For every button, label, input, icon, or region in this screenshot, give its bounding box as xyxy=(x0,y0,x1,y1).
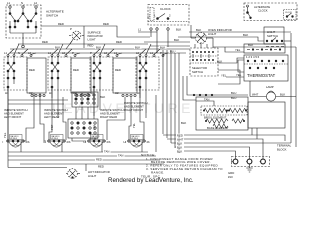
surface element LF xyxy=(3,135,30,148)
credit text xyxy=(108,177,194,184)
svg-text:RED: RED xyxy=(115,68,121,72)
svg-text:HI: HI xyxy=(84,140,87,144)
svg-text:L2: L2 xyxy=(136,51,140,55)
label LAMP xyxy=(266,85,274,89)
wire RED to clock/light switch xyxy=(178,33,264,41)
svg-text:Rendered by LeadVenture, Inc.: Rendered by LeadVenture, Inc. xyxy=(108,177,194,184)
svg-text:BLK: BLK xyxy=(181,121,186,125)
svg-text:P: P xyxy=(160,51,162,55)
clock dashed box xyxy=(148,5,189,26)
svg-text:RED: RED xyxy=(96,158,102,162)
surface element RF xyxy=(124,135,151,148)
svg-text:LIGHT: LIGHT xyxy=(88,38,97,42)
infinite switch module 4 xyxy=(136,51,164,98)
svg-text:BLK: BLK xyxy=(135,46,140,50)
svg-text:H1: H1 xyxy=(5,91,9,95)
selector switch dashed box xyxy=(190,48,218,76)
svg-text:RED: RED xyxy=(29,68,35,72)
svg-text:TAN: TAN xyxy=(118,154,123,158)
hot indicator light xyxy=(66,169,80,179)
thermostat left wires xyxy=(226,60,244,77)
svg-text:1 2 3 4 5 6: 1 2 3 4 5 6 xyxy=(246,55,260,59)
label PRP rotated xyxy=(50,123,136,130)
svg-text:L1: L1 xyxy=(150,51,154,55)
alternate clock dashed box xyxy=(244,3,297,21)
svg-text:TAN: TAN xyxy=(204,98,209,102)
svg-text:THERMOSTAT: THERMOSTAT xyxy=(247,73,276,78)
wire clock to oven indicator xyxy=(190,25,192,38)
surface element RR xyxy=(84,135,111,148)
svg-text:L1: L1 xyxy=(7,1,11,5)
svg-text:L2: L2 xyxy=(104,51,108,55)
svg-text:RED: RED xyxy=(58,22,64,26)
module 1 wire box xyxy=(27,58,46,97)
svg-text:LEFT FRONT: LEFT FRONT xyxy=(4,115,21,119)
connector grid top xyxy=(72,92,105,107)
svg-text:H1: H1 xyxy=(49,91,53,95)
light switch box xyxy=(264,27,284,47)
wire BLK under clock xyxy=(144,38,190,46)
svg-text:BLK: BLK xyxy=(196,28,201,32)
svg-text:BLU: BLU xyxy=(231,96,236,100)
svg-text:BLK: BLK xyxy=(248,43,253,47)
svg-text:CLOCK: CLOCK xyxy=(160,7,172,11)
label infinite switch right rear xyxy=(100,108,123,119)
node below alternate switch xyxy=(22,38,25,48)
broil element box xyxy=(196,97,248,130)
label terminal block xyxy=(277,144,292,152)
wire RED lower-left xyxy=(18,40,148,44)
infinite switch module 3 xyxy=(90,51,118,98)
right rail wires xyxy=(284,33,296,147)
svg-text:RED: RED xyxy=(116,40,122,44)
wires module1 to element LF xyxy=(8,88,46,141)
module 3 wire box xyxy=(113,58,137,97)
svg-text:N: N xyxy=(18,51,20,55)
svg-text:YEL: YEL xyxy=(3,132,7,138)
svg-text:BLK: BLK xyxy=(280,93,285,97)
svg-text:LIGHT: LIGHT xyxy=(208,32,217,36)
selector wires right xyxy=(183,58,248,100)
clock terminals below xyxy=(150,27,169,53)
wires P diagonals near surface light xyxy=(66,27,93,49)
svg-text:YEL: YEL xyxy=(235,48,241,52)
svg-text:RED: RED xyxy=(103,22,109,26)
oven light receptacle box xyxy=(244,44,285,53)
svg-text:BLU: BLU xyxy=(231,91,236,95)
element drop stubs xyxy=(21,142,142,152)
label BLK near broil xyxy=(181,121,186,125)
svg-text:N: N xyxy=(21,1,23,5)
selector feeder stubs xyxy=(195,42,213,48)
svg-text:P: P xyxy=(72,51,74,55)
svg-text:LIGHT: LIGHT xyxy=(88,174,97,178)
svg-text:PRP: PRP xyxy=(93,124,97,130)
svg-text:CLOCK: CLOCK xyxy=(258,9,268,13)
svg-text:YEL: YEL xyxy=(148,14,151,19)
svg-text:BLK: BLK xyxy=(160,46,165,50)
svg-text:RED: RED xyxy=(88,44,94,48)
label oven indicator light xyxy=(208,28,232,36)
svg-text:P: P xyxy=(90,51,92,55)
wire TAN top of broil box xyxy=(196,98,214,107)
label infinite switch left front xyxy=(4,108,27,119)
svg-text:SWITCH: SWITCH xyxy=(267,34,278,38)
notes text xyxy=(141,153,223,178)
svg-text:RIGHT REAR: RIGHT REAR xyxy=(100,115,117,119)
svg-text:BLK: BLK xyxy=(217,60,222,64)
svg-text:L1: L1 xyxy=(48,51,52,55)
surface element LR xyxy=(44,135,71,148)
svg-text:2Ib: 2Ib xyxy=(67,140,71,144)
module 2 wire box xyxy=(71,58,91,97)
svg-text:BAKE ELEMENT: BAKE ELEMENT xyxy=(207,126,229,130)
svg-text:L1: L1 xyxy=(4,51,8,55)
svg-text:YEL: YEL xyxy=(221,74,227,78)
connector grid bottom xyxy=(68,119,98,138)
alternate switch SW-ALT xyxy=(6,1,41,38)
svg-text:RED: RED xyxy=(73,68,79,72)
label infinite switch right front xyxy=(124,101,147,112)
oven indicator light DS2 xyxy=(191,33,213,44)
wire BLK bus 1 xyxy=(10,46,150,50)
bus stack to terminal block xyxy=(163,128,291,159)
wire BLK bus 2 xyxy=(10,46,190,54)
label alternate switch xyxy=(46,10,64,18)
svg-text:TAN: TAN xyxy=(104,150,109,154)
svg-text:H2: H2 xyxy=(115,91,119,95)
svg-text:LEFT REAR: LEFT REAR xyxy=(44,115,59,119)
svg-text:W 2I8-8: W 2I8-8 xyxy=(51,138,58,140)
svg-text:L1: L1 xyxy=(138,28,142,32)
svg-text:PRP: PRP xyxy=(50,124,54,130)
diagonal feeders to module tops xyxy=(8,44,168,55)
wires below elements xyxy=(8,150,164,172)
svg-text:2Ib: 2Ib xyxy=(26,140,30,144)
svg-text:2b: 2b xyxy=(147,140,151,144)
svg-text:L2: L2 xyxy=(34,1,38,5)
svg-text:L2: L2 xyxy=(62,51,66,55)
wire BLK from clock xyxy=(138,28,291,33)
infinite switch module 1 xyxy=(4,51,32,98)
svg-text:YEL: YEL xyxy=(236,73,242,77)
svg-text:H1: H1 xyxy=(137,91,141,95)
wires module2 to element LR xyxy=(49,84,66,140)
svg-text:BLK: BLK xyxy=(96,46,101,50)
svg-text:HI: HI xyxy=(124,140,127,144)
wires module3/4 to elements xyxy=(94,84,156,152)
svg-text:BLK: BLK xyxy=(174,38,179,42)
svg-text:SWITCH: SWITCH xyxy=(192,70,203,74)
svg-text:SWITCH: SWITCH xyxy=(46,14,58,18)
svg-text:RIGHT FRONT: RIGHT FRONT xyxy=(124,108,143,112)
svg-text:BLK: BLK xyxy=(100,95,105,99)
svg-text:BLK: BLK xyxy=(177,149,182,153)
infinite switch module 2 xyxy=(48,51,76,98)
left rail wire xyxy=(3,98,68,168)
label infinite switch left rear xyxy=(44,108,67,119)
svg-text:2Ib: 2Ib xyxy=(107,140,111,144)
wires grids to elements xyxy=(72,107,95,141)
wire bundle right of module 4 xyxy=(163,50,179,153)
wire RED top run xyxy=(41,22,150,37)
surface indicator light DS1 xyxy=(69,26,84,48)
svg-text:W 2I8-8: W 2I8-8 xyxy=(10,138,17,140)
svg-text:#10: #10 xyxy=(228,175,233,179)
label surface indicator light xyxy=(88,31,103,42)
label hot indicator light xyxy=(88,170,110,178)
svg-text:RED: RED xyxy=(98,164,104,168)
svg-text:YEL: YEL xyxy=(132,123,136,128)
terminal block xyxy=(231,157,270,167)
svg-text:LAMP: LAMP xyxy=(266,85,274,89)
oven lamp xyxy=(250,81,296,101)
svg-text:W 2I8-8: W 2I8-8 xyxy=(131,138,138,140)
svg-text:P: P xyxy=(70,27,72,31)
oven box right xyxy=(248,102,285,128)
wire from oven indicator xyxy=(213,38,296,52)
svg-text:BLK: BLK xyxy=(176,28,181,32)
svg-text:BLK: BLK xyxy=(243,33,248,37)
ground xyxy=(246,164,252,172)
svg-text:WHT: WHT xyxy=(252,93,259,97)
svg-text:BLOCK: BLOCK xyxy=(277,148,287,152)
clock left internal component xyxy=(148,8,155,21)
svg-text:W 2I8-8: W 2I8-8 xyxy=(91,138,98,140)
svg-text:RED: RED xyxy=(42,40,48,44)
thermostat box xyxy=(244,55,288,81)
label near ground xyxy=(228,171,234,179)
